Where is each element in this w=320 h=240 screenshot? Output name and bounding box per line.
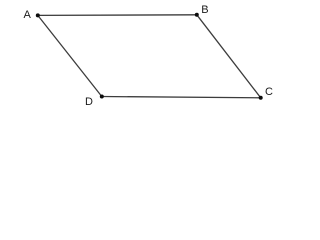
svg-text:D: D [85,96,93,108]
svg-text:B: B [201,4,208,16]
svg-text:A: A [24,9,32,21]
svg-text:C: C [265,86,273,98]
